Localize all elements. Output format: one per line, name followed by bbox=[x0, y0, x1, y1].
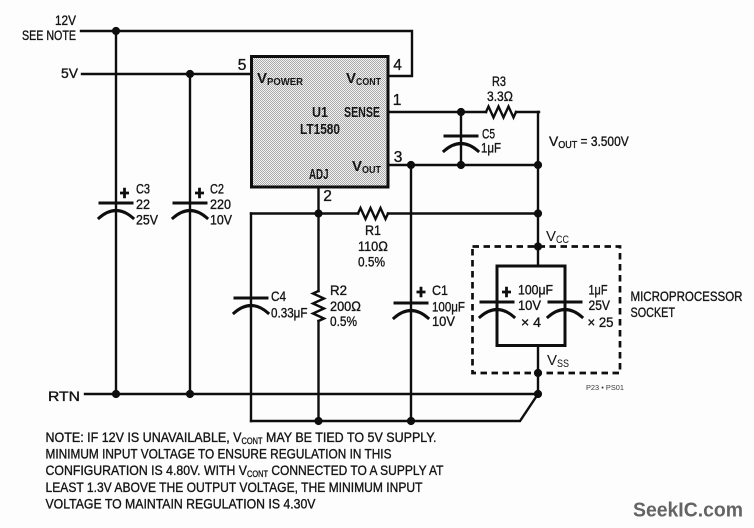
svg-text:0.33μF: 0.33μF bbox=[271, 306, 308, 321]
svg-text:25V: 25V bbox=[589, 298, 611, 313]
svg-text:22: 22 bbox=[136, 197, 150, 212]
svg-text:ADJ: ADJ bbox=[309, 166, 329, 183]
svg-text:0.5%: 0.5% bbox=[358, 255, 385, 270]
svg-text:100μF: 100μF bbox=[432, 300, 465, 315]
svg-text:5: 5 bbox=[238, 57, 247, 74]
svg-text:1μF: 1μF bbox=[589, 283, 608, 298]
svg-text:CONFIGURATION IS 4.80V. WITH V: CONFIGURATION IS 4.80V. WITH VCONT CONNE… bbox=[46, 463, 444, 480]
svg-text:0.5%: 0.5% bbox=[330, 314, 357, 329]
svg-text:MICROPROCESSOR: MICROPROCESSOR bbox=[631, 289, 743, 304]
svg-text:P23 • PS01: P23 • PS01 bbox=[586, 383, 624, 392]
svg-text:SENSE: SENSE bbox=[344, 104, 380, 121]
svg-text:MINIMUM INPUT VOLTAGE TO ENSUR: MINIMUM INPUT VOLTAGE TO ENSURE REGULATI… bbox=[46, 447, 392, 462]
svg-text:10V: 10V bbox=[432, 314, 456, 329]
svg-text:LEAST 1.3V ABOVE THE OUTPUT VO: LEAST 1.3V ABOVE THE OUTPUT VOLTAGE, THE… bbox=[46, 480, 423, 495]
svg-text:10V: 10V bbox=[210, 213, 233, 228]
svg-text:3.3Ω: 3.3Ω bbox=[487, 89, 513, 104]
svg-text:4: 4 bbox=[393, 57, 402, 74]
svg-text:5V: 5V bbox=[61, 66, 79, 81]
svg-text:110Ω: 110Ω bbox=[358, 239, 388, 254]
svg-text:SeekIC.com: SeekIC.com bbox=[633, 500, 743, 522]
svg-text:1μF: 1μF bbox=[481, 141, 501, 156]
svg-text:C3: C3 bbox=[136, 182, 150, 197]
svg-text:220: 220 bbox=[210, 197, 231, 212]
svg-text:SEE NOTE: SEE NOTE bbox=[22, 28, 76, 43]
svg-text:× 25: × 25 bbox=[588, 315, 614, 330]
svg-text:LT1580: LT1580 bbox=[300, 121, 340, 138]
svg-text:× 4: × 4 bbox=[521, 315, 541, 330]
svg-text:NOTE: IF 12V IS UNAVAILABLE, V: NOTE: IF 12V IS UNAVAILABLE, VCONT MAY B… bbox=[46, 430, 437, 447]
svg-text:100μF: 100μF bbox=[518, 283, 553, 298]
svg-text:25V: 25V bbox=[136, 213, 159, 228]
svg-text:C5: C5 bbox=[482, 127, 495, 142]
svg-text:R2: R2 bbox=[330, 283, 347, 298]
svg-text:3: 3 bbox=[394, 149, 403, 166]
svg-text:C2: C2 bbox=[210, 182, 224, 197]
svg-text:1: 1 bbox=[393, 92, 402, 109]
svg-text:VOLTAGE TO MAINTAIN REGULATION: VOLTAGE TO MAINTAIN REGULATION IS 4.30V bbox=[46, 496, 317, 511]
svg-text:RTN: RTN bbox=[48, 389, 80, 404]
svg-text:10V: 10V bbox=[518, 298, 542, 313]
svg-text:C1: C1 bbox=[432, 283, 448, 298]
svg-text:U1: U1 bbox=[312, 104, 328, 121]
svg-text:2: 2 bbox=[323, 188, 332, 205]
svg-text:R3: R3 bbox=[492, 74, 506, 89]
svg-text:C4: C4 bbox=[271, 289, 286, 304]
svg-text:R1: R1 bbox=[365, 223, 381, 238]
svg-text:SOCKET: SOCKET bbox=[631, 305, 676, 320]
svg-text:12V: 12V bbox=[55, 13, 77, 28]
svg-text:200Ω: 200Ω bbox=[330, 299, 361, 314]
